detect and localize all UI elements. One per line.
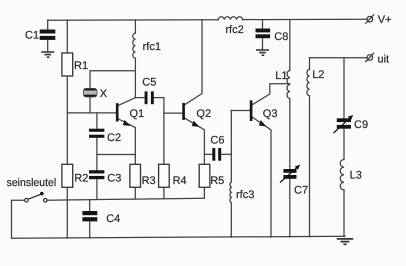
wire Q2 emitter / R5 xyxy=(185,118,205,198)
svg-text:seinsleutel: seinsleutel xyxy=(7,177,57,189)
wire Q2 emitter to C6 xyxy=(204,153,212,155)
transistor Q3 xyxy=(250,100,253,121)
capacitor C7 (variable) xyxy=(283,169,296,179)
wire Q1 collector xyxy=(118,98,135,106)
wire C2 C3 column xyxy=(96,113,98,199)
wire Q3 collector xyxy=(252,84,289,105)
wire Q1 emitter xyxy=(118,119,135,128)
capacitor C3 xyxy=(89,170,104,179)
wire Q2 base xyxy=(164,112,182,114)
wire L2 to ground rail xyxy=(309,96,311,237)
svg-text:C3: C3 xyxy=(107,172,121,184)
arrow Q1 emitter xyxy=(123,120,131,126)
svg-text:rfc2: rfc2 xyxy=(225,24,243,36)
wire rfc1 to Q1 collector node xyxy=(134,58,136,97)
wire Q2 collector xyxy=(185,20,202,105)
svg-text:L2: L2 xyxy=(312,69,324,81)
wire C4 leads xyxy=(89,200,91,238)
svg-text:C2: C2 xyxy=(107,132,121,144)
terminal V+ xyxy=(367,16,373,22)
wire Q1 base line xyxy=(67,112,116,114)
svg-text:C4: C4 xyxy=(106,213,120,225)
inductor rfc1 xyxy=(133,33,136,58)
svg-text:Q1: Q1 xyxy=(130,108,145,120)
svg-text:uit: uit xyxy=(378,53,390,65)
wire node to C5 xyxy=(135,97,144,99)
svg-text:Q3: Q3 xyxy=(263,108,278,120)
wire C5 to R4 column xyxy=(154,97,164,99)
wire crystal leads xyxy=(90,71,135,113)
wire C6 to Q3 base column xyxy=(221,153,231,155)
arrow Q3 emitter xyxy=(259,120,267,127)
wire L1 top lead xyxy=(289,20,291,71)
svg-text:C5: C5 xyxy=(142,77,156,89)
wire Q3 base column xyxy=(230,111,232,183)
switch seinsleutel xyxy=(25,198,29,202)
capacitor C6 xyxy=(212,148,221,161)
inductor L2 xyxy=(307,69,310,95)
wire R1 R2 column xyxy=(66,20,68,238)
inductor L3 xyxy=(340,160,344,190)
resistor R5 xyxy=(199,164,210,187)
arrow Q2 emitter xyxy=(192,121,200,127)
wire keyed line xyxy=(47,198,204,200)
inductor L1 xyxy=(287,71,290,99)
transistor Q2 xyxy=(182,103,185,120)
wire ground rail xyxy=(12,236,346,238)
wire C7 to ground rail xyxy=(289,179,291,237)
resistor R2 xyxy=(62,164,73,187)
svg-text:R1: R1 xyxy=(74,60,88,72)
svg-text:C7: C7 xyxy=(294,184,308,196)
svg-text:C1: C1 xyxy=(25,29,39,41)
wire C8 leads xyxy=(262,20,264,50)
capacitor C9 (variable) xyxy=(337,118,351,128)
svg-text:C8: C8 xyxy=(274,31,288,43)
wire switch left xyxy=(12,200,25,238)
capacitor C1 xyxy=(40,30,56,40)
wire L3 to ground rail xyxy=(343,190,345,237)
wire top rail right of rfc2 xyxy=(243,18,367,20)
svg-text:V+: V+ xyxy=(378,14,392,26)
svg-text:Q2: Q2 xyxy=(196,108,211,120)
svg-text:R3: R3 xyxy=(142,175,156,187)
crystal X xyxy=(83,88,97,97)
capacitor C5 xyxy=(145,91,154,104)
wire C9 top lead xyxy=(343,58,345,160)
svg-text:R4: R4 xyxy=(173,175,187,187)
svg-text:L1: L1 xyxy=(275,70,287,82)
svg-text:X: X xyxy=(100,88,108,100)
wire uit line xyxy=(310,57,367,59)
wire L2 top lead xyxy=(309,58,311,70)
inductor rfc3 xyxy=(230,182,231,203)
capacitor C4 xyxy=(82,211,97,221)
resistor R3 xyxy=(130,164,141,187)
ground (output, bottom right) xyxy=(337,239,353,244)
svg-text:rfc1: rfc1 xyxy=(143,41,161,53)
wire rfc1 top lead xyxy=(134,20,136,33)
transistor Q1 xyxy=(116,103,119,121)
wire Q1 emitter column / R3 xyxy=(134,128,136,199)
wire R4 column xyxy=(163,98,165,199)
svg-text:rfc3: rfc3 xyxy=(236,189,254,201)
svg-text:R5: R5 xyxy=(210,175,224,187)
capacitor C8 xyxy=(256,29,271,39)
svg-text:C6: C6 xyxy=(210,135,224,147)
inductor rfc2 xyxy=(218,17,242,20)
resistor R1 xyxy=(62,53,73,76)
wire Q3 emitter xyxy=(252,117,271,237)
ground (C8) xyxy=(256,50,269,55)
terminal uit xyxy=(367,55,373,61)
resistor R4 xyxy=(159,164,170,187)
ground (C1) xyxy=(41,52,54,57)
svg-text:C9: C9 xyxy=(354,119,368,131)
wire rfc3 to ground rail xyxy=(230,203,232,237)
capacitor C2 xyxy=(89,129,104,138)
svg-text:R2: R2 xyxy=(74,172,88,184)
wire Q3 base lead xyxy=(231,110,250,112)
wire C1 leads xyxy=(47,20,49,52)
wire L1 to C7 xyxy=(289,99,291,169)
wire emitter bypass to C3 node xyxy=(97,154,135,156)
svg-text:L3: L3 xyxy=(350,169,362,181)
wire top rail left of rfc2 xyxy=(48,19,219,22)
